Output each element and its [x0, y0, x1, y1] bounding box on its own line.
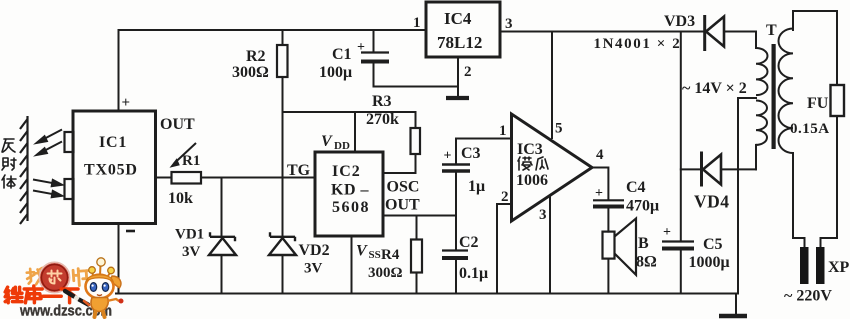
wire IC2 VSS pin to ground rail	[351, 236, 353, 294]
wire VD1 top lead	[221, 178, 223, 237]
svg-text:300Ω: 300Ω	[232, 64, 269, 81]
wire R2 top lead	[282, 30, 284, 45]
wire DC+ vertical (rectifier output to C5)	[680, 32, 682, 242]
svg-text:0.15A: 0.15A	[790, 121, 830, 137]
svg-text:3V: 3V	[182, 244, 201, 260]
diode VD4	[702, 152, 722, 187]
svg-text:V: V	[356, 243, 368, 260]
resistor R2	[277, 45, 288, 77]
label shagua Chinese	[518, 157, 548, 170]
diode VD3	[705, 15, 724, 51]
svg-text:+: +	[663, 225, 671, 240]
wire IC2 VDD pin	[354, 112, 356, 152]
wire primary top to fuse	[793, 11, 837, 85]
svg-text:1006: 1006	[516, 172, 548, 189]
wire VD4 line	[681, 168, 756, 170]
plug XP pins	[800, 247, 825, 284]
wire ground symbol stem	[735, 294, 737, 316]
watermark red circle with xin	[40, 263, 69, 292]
fuse FU	[831, 85, 845, 116]
svg-text:8Ω: 8Ω	[636, 254, 657, 271]
svg-text:1N4001 × 2: 1N4001 × 2	[594, 36, 682, 52]
wire C1 top lead	[373, 30, 375, 52]
ic IC2 KD-5608 box	[315, 152, 383, 236]
svg-text:OUT: OUT	[385, 197, 420, 214]
wire OUT pin of IC2 to C3/C2 node	[383, 215, 456, 217]
wire VD2 bottom lead	[282, 255, 284, 294]
svg-text:5608: 5608	[332, 199, 370, 216]
wire IC3 pin2 to ground rail	[497, 204, 512, 294]
ic IC4 78L12 regulator box	[426, 2, 500, 57]
wire top rail left (VD3 cathode to IC4 pin1 / R2 / C1 / IC1 plus)	[119, 29, 427, 31]
watermark weiku yixia red text	[5, 286, 78, 303]
wire transformer secondary bottom	[755, 145, 757, 170]
svg-text:IC1: IC1	[99, 134, 127, 151]
svg-text:300Ω: 300Ω	[368, 265, 403, 281]
svg-text:VD3: VD3	[664, 13, 695, 30]
zener diode VD1	[209, 232, 236, 255]
svg-text:OSC: OSC	[387, 179, 420, 196]
svg-text:B: B	[638, 235, 649, 252]
wire OUT line IC1 to R1	[156, 177, 172, 179]
wire R4 bottom lead	[416, 273, 418, 294]
svg-text:VD4: VD4	[694, 192, 730, 212]
wire IC1 minus lead	[118, 224, 120, 294]
svg-text:R2: R2	[246, 48, 266, 65]
wire VD3 to transformer secondary top	[724, 32, 756, 49]
wire C3 bottom to C2 top	[455, 172, 457, 251]
arrows emitted light	[37, 130, 63, 156]
svg-text:R3: R3	[372, 93, 392, 110]
svg-text:SS: SS	[369, 249, 381, 261]
svg-text:FU: FU	[807, 95, 829, 112]
svg-text:+: +	[595, 186, 603, 201]
wire C2 bottom lead	[455, 259, 457, 294]
wire VD1 bottom lead	[221, 255, 223, 294]
svg-text:C2: C2	[459, 234, 479, 251]
wire R2 bottom / VDD / TG / VD2 vertical	[282, 77, 284, 237]
op-amp IC3 shagua 1006 triangle	[512, 114, 593, 221]
svg-text:XP: XP	[828, 259, 850, 276]
capacitor C3	[442, 165, 470, 172]
svg-text:DD: DD	[334, 140, 350, 152]
wire C3 top lead	[455, 139, 457, 165]
ground symbol bar	[719, 314, 747, 319]
svg-text:V: V	[321, 133, 333, 150]
reflector wall	[20, 116, 28, 224]
wire transformer center tap to ground	[738, 98, 756, 294]
svg-text:4: 4	[596, 147, 604, 163]
svg-text:10k: 10k	[168, 190, 193, 207]
resistor R4	[411, 240, 422, 273]
wire speaker bottom lead	[607, 259, 609, 294]
label minus of IC1	[126, 230, 135, 233]
svg-text:C4: C4	[626, 179, 646, 196]
capacitor C4	[593, 200, 624, 206]
svg-text:R1: R1	[182, 153, 200, 169]
svg-text:KD –: KD –	[331, 182, 370, 199]
transformer T primary winding	[779, 29, 794, 154]
wire C4 bottom to speaker	[607, 207, 609, 232]
svg-text:3: 3	[505, 16, 513, 32]
wire IC3 pin1 from C3	[456, 138, 512, 140]
capacitor C5	[662, 242, 694, 249]
wire bottom ground rail	[116, 293, 736, 295]
svg-text:+: +	[444, 149, 452, 164]
wire primary bottom to XP left pin	[793, 153, 805, 247]
svg-text:3V: 3V	[304, 261, 323, 277]
transformer core	[772, 44, 776, 149]
svg-text:TX05D: TX05D	[84, 162, 138, 179]
wire IC3 pin5 drop from 12V rail	[551, 32, 553, 139]
svg-text:IC3: IC3	[517, 141, 543, 158]
svg-text:+: +	[357, 40, 365, 55]
resistor R3	[411, 128, 421, 154]
svg-text:100μ: 100μ	[319, 64, 352, 81]
svg-text:C1: C1	[332, 46, 352, 63]
svg-text:C3: C3	[461, 145, 481, 162]
wire fuse to XP right pin	[821, 116, 838, 247]
svg-text:78L12: 78L12	[437, 33, 482, 52]
svg-text:IC4: IC4	[444, 9, 472, 28]
svg-text:5: 5	[555, 121, 563, 137]
svg-text:IC2: IC2	[332, 163, 361, 180]
svg-text:1000μ: 1000μ	[689, 254, 730, 271]
transformer T secondary winding	[756, 48, 768, 145]
wire R4 top lead	[416, 216, 418, 240]
svg-text:+: +	[122, 95, 131, 111]
wire C1 bottom lead to IC4 pin2	[374, 62, 459, 87]
svg-text:1μ: 1μ	[468, 178, 485, 195]
capacitor C1	[361, 53, 389, 62]
svg-text:R4: R4	[381, 247, 400, 263]
speaker B	[603, 219, 637, 275]
wire IC1 plus lead	[118, 30, 120, 111]
svg-text:VD1: VD1	[175, 227, 204, 243]
potentiometer R1	[172, 143, 202, 184]
svg-text:470μ: 470μ	[626, 198, 659, 215]
wire C5 bottom lead	[680, 249, 682, 294]
zener diode VD2	[269, 232, 296, 255]
svg-text:~ 220V: ~ 220V	[784, 288, 832, 305]
svg-text:2: 2	[464, 64, 472, 80]
wire R3 top lead	[415, 112, 417, 128]
svg-text:OUT: OUT	[160, 116, 195, 133]
svg-text:C5: C5	[703, 236, 723, 253]
wire VDD horizontal line	[283, 111, 416, 113]
svg-text:VD2: VD2	[299, 242, 330, 259]
wire R1 to TG pin of IC2	[201, 177, 315, 179]
svg-text:T: T	[766, 22, 777, 39]
wire IC4 pin2 to ground	[457, 57, 459, 97]
svg-text:3: 3	[539, 207, 547, 223]
arrows reflected light	[33, 180, 62, 198]
svg-text:1: 1	[413, 15, 421, 31]
wire top rail right (IC4 pin3 to VD3)	[500, 31, 704, 33]
svg-text:1: 1	[499, 123, 507, 139]
svg-text:0.1μ: 0.1μ	[459, 265, 488, 282]
svg-text:~ 14V × 2: ~ 14V × 2	[682, 80, 747, 97]
wire IC3 pin4 to C4	[592, 168, 608, 201]
ground bar under IC4 pin2	[446, 96, 469, 100]
svg-text:2: 2	[501, 189, 509, 205]
label fanshiti (reflector) vertical Chinese text	[2, 139, 16, 188]
watermark zhao xin pian outline text	[27, 268, 89, 286]
wire R3 bottom to OSC pin	[383, 154, 416, 173]
ic IC1 TX05D photoelectric sensor box	[65, 111, 156, 224]
wire IC3 pin3 to ground rail	[549, 196, 551, 294]
capacitor C2	[442, 251, 468, 259]
svg-text:TG: TG	[287, 162, 311, 179]
svg-text:270k: 270k	[366, 111, 399, 128]
watermark mascot	[65, 258, 124, 317]
